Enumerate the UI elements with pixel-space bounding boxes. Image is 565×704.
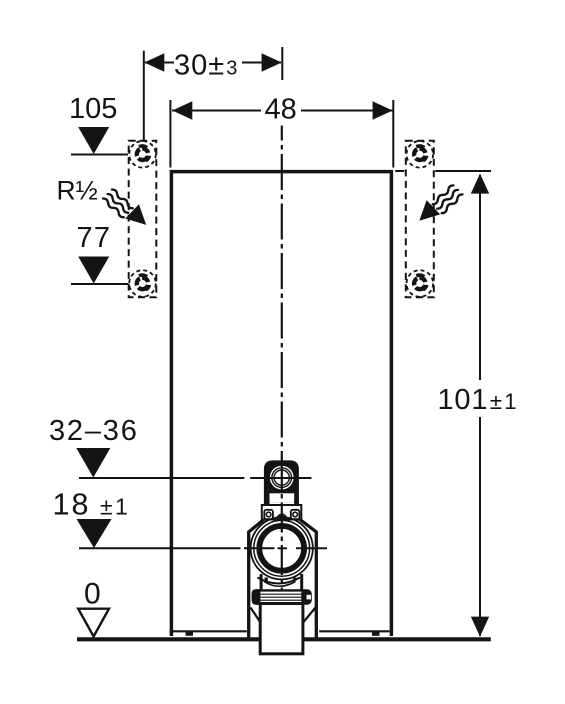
drain pipe xyxy=(260,604,303,654)
screw bottom-right xyxy=(413,275,427,290)
dimension 30±3 extension line left xyxy=(143,51,145,140)
svg-text:105: 105 xyxy=(69,93,117,125)
screw top-left xyxy=(136,146,150,161)
dimension 48 extension line right xyxy=(392,100,394,168)
level line 32-36 / water supply axis xyxy=(79,477,244,479)
dimension 101±1 extension line (top, horizontal) xyxy=(395,170,404,172)
dimension 30±3 extension line right (panel centerline stub) xyxy=(281,47,283,80)
dimension 101±1 line xyxy=(479,175,481,380)
level mark 77 triangle xyxy=(78,257,109,284)
centerline vertical (dash-dot) xyxy=(281,126,283,141)
clamp bracket xyxy=(253,590,311,603)
support brace left xyxy=(251,608,262,625)
dimension 101±1 arrow bottom xyxy=(471,617,489,637)
panel foot left xyxy=(186,631,194,636)
R1/2 arrow right xyxy=(419,200,440,221)
support brace right xyxy=(302,608,316,625)
dimension 48 line xyxy=(172,110,261,112)
level line 18 / drain axis xyxy=(79,547,241,549)
flange ear right xyxy=(291,510,300,519)
screw hole circle top-right (dashed) xyxy=(407,141,434,168)
svg-text:48: 48 xyxy=(265,94,297,126)
level mark 18 triangle xyxy=(77,519,112,548)
supply valve bonnet (black) xyxy=(264,460,299,502)
screw bottom-left xyxy=(136,275,150,290)
dimension 48 arrow right xyxy=(373,101,393,119)
dimension 30±3 line xyxy=(145,62,174,64)
drain circle rings xyxy=(251,517,313,579)
flange center boss xyxy=(276,514,287,520)
screw hole circle top-left (dashed) xyxy=(129,141,156,168)
level mark 32-36 triangle xyxy=(76,448,110,478)
screw glyphs xyxy=(136,146,427,290)
level line 105 xyxy=(71,154,128,156)
level mark 105 triangle xyxy=(78,127,109,154)
mounting plate right (dashed) xyxy=(406,141,434,298)
mounting plate left (dashed) xyxy=(129,141,157,298)
svg-text:0: 0 xyxy=(84,578,101,611)
dimension 48 arrow left xyxy=(172,101,192,119)
R1/2 squiggle left xyxy=(103,190,133,218)
level mark 0 triangle (open) xyxy=(78,609,109,637)
panel (sanitary module) outline xyxy=(171,172,391,636)
supply pipe circle xyxy=(270,466,294,490)
supply axis line over valve xyxy=(250,477,311,479)
level line 77 xyxy=(71,283,128,285)
svg-text:32–36: 32–36 xyxy=(49,415,139,447)
svg-text:101±1: 101±1 xyxy=(438,384,519,416)
drain bracket sides xyxy=(260,574,263,591)
svg-text:77: 77 xyxy=(77,222,112,254)
flange ear left xyxy=(264,510,273,519)
panel bottom edge xyxy=(173,630,247,632)
bonnet cutout xyxy=(270,493,295,502)
drain lower arcs xyxy=(258,578,301,584)
dimension 101±1 arrow top xyxy=(471,174,489,194)
screw hole circle bottom-right (dashed) xyxy=(407,270,434,297)
drain housing outline xyxy=(249,520,317,638)
floor line xyxy=(77,637,491,641)
dimension 48 extension line left xyxy=(169,100,171,168)
screw hole circle bottom-left (dashed) xyxy=(129,270,156,297)
R1/2 arrow left xyxy=(125,204,146,225)
screw top-right xyxy=(413,146,427,161)
svg-text:R½: R½ xyxy=(57,176,98,206)
dimension 30±3 arrow right xyxy=(262,53,282,71)
dimension 30±3 arrow left xyxy=(144,53,164,71)
R1/2 squiggle right xyxy=(433,185,463,213)
valve flange xyxy=(262,505,302,520)
panel foot right xyxy=(372,631,380,636)
